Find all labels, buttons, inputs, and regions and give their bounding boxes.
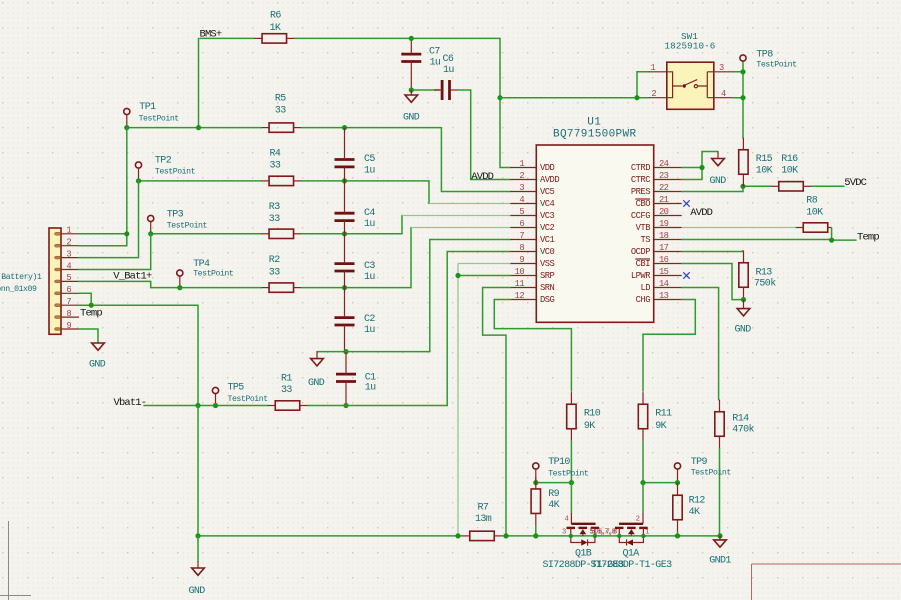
svg-text:16: 16 (659, 255, 669, 265)
ground bottom left (192, 561, 205, 575)
svg-text:1: 1 (519, 159, 524, 169)
node R13 bottom junction (741, 297, 746, 302)
wire R8 to Temp corner (831, 228, 833, 240)
pin 2 AVDD (510, 179, 536, 181)
wire SW1 right to TP8 column (732, 71, 743, 73)
svg-text:SRN: SRN (540, 283, 555, 293)
svg-text:1: 1 (650, 63, 655, 73)
node C5 top junction (342, 125, 347, 130)
node SW1 left junction (634, 95, 639, 100)
wire SRP (458, 275, 510, 277)
resistor R8 (803, 223, 828, 232)
svg-text:4: 4 (66, 261, 71, 271)
wire J1 pin1 vertical up to TP1 row (126, 128, 128, 234)
testpoint TP5 (212, 387, 218, 405)
testpoint TP2 (135, 162, 141, 181)
svg-text:6: 6 (519, 219, 524, 229)
svg-text:1: 1 (645, 529, 649, 537)
svg-text:C7: C7 (429, 46, 440, 57)
ground left of C1 (311, 352, 324, 366)
svg-text:22: 22 (659, 183, 669, 193)
svg-text:GND: GND (308, 378, 325, 389)
svg-text:9K: 9K (655, 421, 666, 432)
wire to SW1 pins 1-2 (500, 97, 649, 99)
svg-text:GND1: GND1 (709, 556, 731, 567)
wire TP10 row (536, 482, 572, 484)
svg-text:AVDD: AVDD (471, 171, 493, 183)
svg-text:20: 20 (659, 207, 669, 217)
svg-text:6: 6 (66, 285, 71, 295)
svg-text:4K: 4K (548, 500, 559, 511)
sheet frame corner bottom-left (0, 521, 31, 600)
svg-text:R11: R11 (655, 408, 672, 419)
svg-text:GND: GND (89, 360, 106, 371)
wire TP8 vertical (742, 61, 744, 138)
wire J1 pin9 to GND (79, 329, 98, 342)
svg-text:TestPoint: TestPoint (691, 468, 732, 478)
resistor R14 (715, 400, 724, 449)
svg-text:TestPoint: TestPoint (228, 394, 269, 404)
svg-text:DSG: DSG (540, 295, 555, 305)
svg-text:1u: 1u (364, 219, 375, 230)
node R12 rail junction (675, 533, 680, 538)
resistor R12 (673, 483, 682, 532)
pin 20 CCFG (654, 215, 682, 217)
svg-text:R1: R1 (281, 374, 292, 385)
svg-text:R10: R10 (584, 408, 601, 419)
pin 18 TS (654, 239, 682, 241)
svg-text:AVDD: AVDD (540, 175, 559, 185)
svg-text:GND: GND (735, 325, 752, 336)
pin 15 LPWR (654, 275, 682, 277)
pin 9 VSS (510, 263, 536, 265)
svg-text:24: 24 (659, 159, 669, 169)
pin 22 PRES (654, 191, 682, 193)
resistor R7 (462, 531, 502, 540)
resistor R15 (739, 138, 748, 187)
node TP1 junction (124, 125, 129, 130)
svg-text:4K: 4K (689, 507, 700, 518)
svg-text:TestPoint: TestPoint (548, 469, 589, 479)
capacitor C7 (401, 54, 421, 61)
svg-text:TestPoint: TestPoint (193, 269, 234, 279)
svg-text:VC0: VC0 (540, 247, 555, 257)
pin 10 SRP (510, 275, 536, 277)
wire J1 pin4 up to TP3 row (79, 234, 151, 270)
svg-text:Q1B: Q1B (575, 549, 592, 560)
svg-text:TestPoint: TestPoint (155, 167, 196, 177)
svg-text:CTRD: CTRD (631, 163, 650, 173)
node SW1 pin3 junction (740, 69, 745, 74)
pin 4 VC4 (510, 203, 536, 205)
svg-text:TestPoint: TestPoint (139, 114, 180, 124)
svg-text:R14: R14 (732, 413, 749, 424)
title block corner (752, 564, 901, 600)
node C2 bottom junction (343, 349, 348, 354)
svg-text:SRP: SRP (540, 271, 555, 281)
ground under J1 pin9 (92, 342, 105, 350)
svg-text:33: 33 (281, 385, 292, 396)
svg-text:VC1: VC1 (540, 235, 555, 245)
svg-text:R5: R5 (275, 94, 286, 105)
wire VSS light (458, 263, 510, 265)
svg-text:4: 4 (519, 195, 524, 205)
wire VC4 light segment (429, 203, 510, 205)
svg-text:R7: R7 (478, 503, 489, 514)
node C7 bottom junction (409, 87, 414, 92)
pin 24 CTRD (654, 167, 682, 169)
wire Vbat1- row (144, 405, 268, 407)
svg-text:10K: 10K (806, 208, 823, 219)
pin 7 VC1 (510, 239, 536, 241)
svg-text:PRES: PRES (631, 187, 650, 197)
svg-text:1u: 1u (443, 65, 454, 76)
svg-text:10: 10 (515, 267, 525, 277)
node R15-R16 junction (740, 184, 745, 189)
svg-text:1825910-6: 1825910-6 (665, 41, 716, 52)
svg-text:Q1A: Q1A (623, 549, 640, 560)
ground under R13 (737, 300, 750, 316)
resistor R11 (638, 392, 647, 441)
svg-text:5: 5 (519, 207, 524, 217)
pin 17 OCDP (654, 251, 682, 253)
wire LD to R14 (682, 288, 719, 400)
node SRP junction (455, 273, 460, 278)
svg-text:5VDC: 5VDC (844, 177, 866, 189)
svg-text:Temp: Temp (80, 308, 102, 320)
svg-text:CCFG: CCFG (631, 211, 650, 221)
wire TP9 row (643, 482, 678, 484)
svg-text:18: 18 (659, 231, 669, 241)
wire VC2 row (151, 281, 262, 287)
svg-text:1K: 1K (270, 23, 281, 34)
svg-text:VDD: VDD (540, 163, 555, 173)
node C3 bottom junction (342, 285, 347, 290)
node TP10 junction (533, 480, 538, 485)
svg-text:4: 4 (565, 516, 569, 524)
node TP9 junction (675, 480, 680, 485)
resistor R10 (567, 392, 576, 441)
svg-text:Conn_01x09: Conn_01x09 (0, 285, 37, 294)
svg-text:14: 14 (659, 279, 669, 289)
testpoint TP4 (177, 270, 183, 288)
svg-text:C5: C5 (364, 154, 375, 165)
wire C2 bottom to GND branch (317, 351, 346, 353)
node Temp junction (829, 238, 834, 243)
pin 19 VTB (654, 227, 682, 229)
wire BMS+ vertical to VC5 row (198, 38, 200, 127)
testpoint TP1 (124, 108, 130, 127)
node R11 gate junction (640, 480, 645, 485)
wire VC2 light segment (411, 227, 510, 229)
pin 16 CBI (654, 263, 682, 265)
node SW1 pin4 junction (740, 95, 745, 100)
svg-text:CTRC: CTRC (631, 175, 650, 185)
wire AVDD from C6 to pin2 (471, 90, 511, 180)
node Q1A source rail (641, 534, 645, 538)
node Vbat1- crossing junction (195, 403, 200, 408)
svg-text:10K: 10K (781, 165, 798, 176)
svg-text:U1: U1 (587, 117, 601, 129)
pin 11 SRN (510, 287, 536, 289)
svg-text:33: 33 (270, 161, 281, 172)
svg-text:VC3: VC3 (540, 211, 555, 221)
wire VC1 from C2 junction (346, 240, 430, 352)
wire C7-C6 gnd row (411, 89, 439, 91)
node R10 gate junction (569, 480, 574, 485)
svg-text:750k: 750k (754, 278, 776, 290)
svg-text:3: 3 (66, 249, 71, 259)
capacitor C4 (335, 213, 355, 220)
svg-text:SI7288DP-T1-GE3: SI7288DP-T1-GE3 (590, 560, 672, 571)
wire CBI to R13 bottom (682, 264, 744, 300)
svg-text:BMS+: BMS+ (200, 28, 222, 40)
no-connect pin21 (683, 200, 689, 206)
svg-text:4: 4 (721, 89, 726, 99)
wire VC0 column (447, 252, 510, 406)
node C1 bottom junction (343, 403, 348, 408)
node J1 pin1 junction (124, 231, 129, 236)
wire CTRD-CTRC tie (682, 167, 702, 169)
pin 23 CTRC (654, 179, 682, 181)
pin 1 VDD (510, 167, 536, 169)
wire J1 pin1 to VC5 column (79, 233, 127, 235)
svg-text:R2: R2 (269, 255, 280, 266)
svg-text:TP3: TP3 (167, 209, 184, 220)
svg-text:R8: R8 (806, 195, 817, 206)
svg-text:7: 7 (519, 231, 524, 241)
wire PRES to 5VDC (682, 186, 772, 191)
wire VC4 row (139, 180, 262, 182)
pin 8 VC0 (510, 251, 536, 253)
testpoint TP9 (674, 463, 680, 483)
wire Vbat1- vertical to bottom rail (197, 406, 199, 536)
wire Q1B gate (570, 483, 572, 513)
svg-text:TestPoint: TestPoint (756, 60, 797, 70)
svg-text:R15: R15 (756, 154, 773, 165)
node TP3 junction (148, 231, 153, 236)
node SRN rail junction (503, 533, 508, 538)
wire VC5 row (127, 127, 262, 129)
svg-text:7: 7 (66, 297, 71, 307)
svg-text:23: 23 (659, 171, 669, 181)
pin 13 CHG (654, 299, 682, 301)
svg-text:5: 5 (66, 273, 71, 283)
svg-text:R12: R12 (689, 496, 706, 507)
svg-text:1u: 1u (365, 383, 376, 394)
wire VC3 row (151, 233, 262, 235)
svg-text:CHG: CHG (636, 295, 651, 305)
capacitor C2 (335, 318, 355, 325)
svg-text:(Battery)1: (Battery)1 (0, 272, 42, 282)
svg-text:Temp: Temp (857, 231, 879, 243)
svg-text:1: 1 (66, 226, 71, 236)
wire J1 pin6 to pin7 (79, 293, 91, 305)
svg-text:OCDP: OCDP (631, 247, 650, 257)
connector J1 (Battery) Conn_01x09 (49, 228, 79, 334)
wire VC3 light segment (402, 215, 510, 217)
svg-text:1u: 1u (364, 165, 375, 176)
svg-text:V_Bat1+: V_Bat1+ (113, 270, 152, 282)
node C4 bottom junction (342, 231, 347, 236)
pin 21 CBO (654, 203, 682, 205)
switch SW1 (649, 62, 732, 109)
svg-text:TP8: TP8 (756, 49, 773, 60)
wire Q1A gate (642, 483, 644, 513)
node CTRD junction (699, 165, 704, 170)
svg-text:GND: GND (189, 586, 206, 597)
svg-text:1u: 1u (430, 58, 441, 69)
svg-text:LPWR: LPWR (631, 271, 651, 281)
wire SRN down to rail (483, 288, 511, 536)
node VSS rail junction (455, 533, 460, 538)
node R9 rail junction (533, 533, 538, 538)
svg-text:TS: TS (640, 235, 650, 245)
node C7 top junction (409, 36, 414, 41)
wire CHG to R11 (643, 300, 695, 392)
svg-text:21: 21 (659, 195, 669, 205)
node Q1B drain rail (593, 534, 597, 538)
svg-text:3: 3 (562, 529, 566, 537)
svg-text:CBI: CBI (636, 259, 651, 269)
node Q1B source rail (569, 534, 573, 538)
no-connect pin15 (683, 272, 689, 278)
svg-text:GND: GND (403, 113, 420, 124)
svg-text:11: 11 (515, 279, 525, 289)
svg-text:LD: LD (640, 283, 650, 293)
node TP2 junction (136, 178, 141, 183)
node VDD-SW junction (497, 95, 502, 100)
svg-text:VC5: VC5 (540, 187, 555, 197)
node BMS+ joins VC5 row (196, 125, 201, 130)
capacitor C6 (442, 80, 449, 100)
node Q1A drain rail (617, 534, 621, 538)
svg-text:VC2: VC2 (540, 223, 555, 233)
svg-text:R9: R9 (548, 489, 559, 500)
svg-text:TP2: TP2 (155, 156, 172, 167)
svg-text:C2: C2 (364, 314, 375, 325)
wire OCDP to R13 top (682, 250, 743, 253)
svg-text:VSS: VSS (540, 259, 555, 269)
svg-text:TP4: TP4 (193, 259, 210, 270)
svg-text:1u: 1u (364, 272, 375, 283)
svg-text:2: 2 (636, 516, 640, 524)
svg-text:TP10: TP10 (548, 457, 570, 468)
node C5 bottom junction (342, 178, 347, 183)
ground GND1 (714, 536, 727, 547)
wire VTB to R8 (light) (682, 227, 796, 229)
svg-text:33: 33 (269, 214, 280, 225)
svg-text:R4: R4 (270, 149, 281, 160)
resistor R5 (262, 123, 302, 132)
resistor R9 (531, 477, 540, 526)
resistor R13 (739, 251, 748, 300)
svg-text:AVDD: AVDD (690, 207, 712, 219)
wire J1 pin7 Vbat- run (79, 305, 198, 405)
testpoint TP3 (148, 215, 154, 233)
pin 14 LD (654, 287, 682, 289)
testpoint TP10 (533, 463, 539, 483)
testpoint TP8 (740, 55, 746, 61)
node rail-left junction (195, 533, 200, 538)
svg-text:470k: 470k (732, 423, 754, 435)
svg-text:VTB: VTB (636, 223, 651, 233)
svg-text:9K: 9K (584, 421, 595, 432)
node TP4 junction (177, 285, 182, 290)
wire VDD vertical x500 (500, 38, 510, 167)
wire J1 pin5 V_Bat1+ to TP4 row (79, 280, 151, 282)
wire J1 pin2 loop (79, 234, 127, 246)
op-amp U1 BQ7791500PWR body (536, 145, 653, 322)
svg-text:8: 8 (519, 243, 524, 253)
node GND1 junction (717, 533, 722, 538)
pin 5 VC3 (510, 215, 536, 217)
svg-text:33: 33 (275, 105, 286, 116)
svg-text:2: 2 (651, 89, 656, 99)
svg-text:10K: 10K (756, 165, 773, 176)
svg-text:CBO: CBO (636, 199, 651, 209)
resistor R4 (262, 176, 302, 185)
transistor Q1A (615, 513, 648, 546)
node TP5 junction (213, 403, 218, 408)
wire TS row (682, 239, 856, 242)
ground under C7 (405, 90, 418, 102)
wire DSG to R10 (494, 300, 571, 392)
svg-text:VC4: VC4 (540, 199, 555, 209)
svg-text:R16: R16 (781, 154, 798, 165)
svg-text:GND: GND (710, 176, 727, 187)
svg-text:TestPoint: TestPoint (167, 220, 208, 230)
svg-text:17: 17 (659, 243, 669, 253)
resistor R2 (262, 283, 302, 292)
svg-text:2: 2 (66, 238, 71, 248)
svg-text:3: 3 (719, 63, 724, 73)
pin 3 VC5 (510, 191, 536, 193)
capacitor C5 (335, 160, 355, 167)
svg-text:C6: C6 (443, 54, 454, 65)
resistor R6 (255, 34, 295, 43)
svg-text:BQ7791500PWR: BQ7791500PWR (553, 129, 636, 141)
wire VSS-SRP column light (457, 264, 459, 536)
svg-text:15: 15 (659, 267, 669, 277)
svg-text:C4: C4 (364, 208, 375, 219)
svg-text:9: 9 (519, 255, 524, 265)
svg-text:2: 2 (519, 171, 524, 181)
wire J1 pin3 up to TP2 row (79, 181, 139, 258)
resistor R1 (268, 401, 308, 410)
node J1 pin6-7 junction (89, 303, 94, 308)
svg-text:33: 33 (269, 267, 280, 278)
svg-text:9: 9 (66, 321, 71, 331)
wire VC1 segment (430, 239, 511, 241)
pin 6 VC2 (510, 227, 536, 229)
ground CTRD/CTRC (712, 152, 725, 166)
pin 12 DSG (510, 299, 536, 301)
svg-text:R13: R13 (756, 268, 773, 279)
capacitor C3 (335, 264, 355, 271)
svg-text:1u: 1u (364, 325, 375, 336)
resistor R3 (262, 229, 302, 238)
capacitor C1 (336, 374, 356, 381)
svg-text:19: 19 (659, 219, 669, 229)
svg-text:13m: 13m (475, 514, 492, 525)
svg-text:R6: R6 (270, 11, 281, 22)
svg-text:R3: R3 (269, 202, 280, 213)
svg-text:Vbat1-: Vbat1- (114, 397, 147, 409)
resistor R16 (771, 182, 811, 191)
wire BMS+ top rail (200, 37, 255, 39)
svg-text:3: 3 (519, 183, 524, 193)
